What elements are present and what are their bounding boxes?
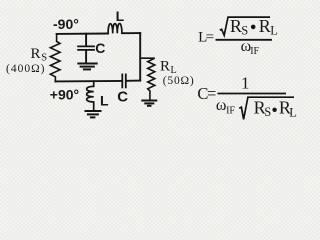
svg-text:L: L bbox=[289, 105, 297, 119]
svg-text:(50Ω): (50Ω) bbox=[163, 75, 195, 87]
svg-text:1: 1 bbox=[241, 73, 250, 92]
svg-text:L: L bbox=[100, 93, 109, 109]
svg-text:-90°: -90° bbox=[53, 16, 79, 32]
svg-text:R: R bbox=[230, 16, 242, 36]
svg-text:(400Ω): (400Ω) bbox=[6, 63, 45, 75]
svg-text:L: L bbox=[116, 8, 125, 24]
svg-text:IF: IF bbox=[226, 105, 235, 116]
svg-text:R: R bbox=[259, 16, 271, 36]
svg-text:R: R bbox=[160, 59, 170, 75]
svg-text:+90°: +90° bbox=[50, 86, 79, 102]
svg-text:S: S bbox=[241, 23, 248, 37]
svg-text:R: R bbox=[31, 46, 41, 62]
svg-text:L: L bbox=[270, 24, 278, 38]
svg-text:=: = bbox=[206, 29, 214, 45]
svg-text:IF: IF bbox=[250, 46, 259, 57]
svg-text:C: C bbox=[117, 88, 128, 105]
svg-text:ω: ω bbox=[216, 97, 227, 114]
svg-text:C: C bbox=[95, 40, 105, 56]
svg-text:S: S bbox=[264, 105, 271, 119]
